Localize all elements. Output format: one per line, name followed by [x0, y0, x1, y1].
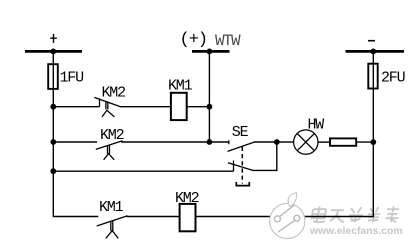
wire: row2 SE to node [254, 141, 277, 143]
node: left bus junction dot [50, 49, 56, 55]
watermark logo circle [270, 193, 305, 239]
wire: resistor to right bus [356, 141, 373, 143]
wire: row1 right segment [187, 106, 210, 108]
fuse 2FU [368, 64, 377, 89]
svg-text:KM1: KM1 [99, 199, 124, 216]
wire: row2 mid segment [121, 141, 229, 143]
wire: row3 long segment [53, 170, 233, 172]
resistor (ballast) [330, 138, 356, 145]
switch SE top pole [228, 140, 255, 151]
svg-text:1FU: 1FU [60, 69, 84, 86]
switch SE bottom pole [228, 161, 253, 172]
switch SE manual actuator bracket [236, 182, 249, 186]
right bus bar [346, 50, 405, 53]
node: right bus dot [370, 49, 376, 55]
wire: right bus vertical + row4 end [196, 51, 374, 216]
wire: row4 mid segment [127, 216, 180, 218]
fuse 1FU [48, 64, 58, 89]
plus terminal label [50, 34, 57, 43]
node: SE output dot [274, 139, 280, 145]
node: middle bus dot [207, 49, 213, 55]
node: row1/mid junction dot [207, 104, 213, 110]
svg-text:www.elecfans.com: www.elecfans.com [309, 226, 403, 237]
svg-text:KM1: KM1 [168, 77, 193, 94]
contact KM2 NC (row1) [94, 97, 119, 117]
contact KM2 NO (row2) [96, 141, 123, 160]
logo leaf [288, 193, 297, 207]
wire: row1 left segment [53, 106, 99, 108]
wire: row2 left segment [53, 141, 97, 143]
node: row1 tap dot [50, 104, 56, 110]
node: row2 tap dot [50, 139, 56, 145]
minus terminal label [368, 40, 375, 42]
contact KM1 NO (row4) [97, 216, 128, 239]
node: row2/right bus dot [370, 139, 376, 145]
wire: left bus vertical + row4 start [53, 51, 98, 216]
svg-text:2FU: 2FU [381, 70, 405, 87]
middle bus bar [192, 50, 230, 53]
watermark text 电子发烧友 [311, 206, 402, 223]
coil KM1 [171, 93, 187, 120]
left bus bar [25, 50, 82, 53]
svg-text:(+): (+) [180, 30, 208, 49]
svg-text:KM2: KM2 [102, 85, 126, 102]
wire: node to lamp [277, 141, 294, 143]
wire: SE bottom right to node riser [253, 142, 277, 170]
wire: middle vertical [208, 51, 210, 142]
lamp HW [294, 130, 318, 154]
coil KM2 [180, 204, 196, 231]
wire: lamp to resistor [318, 141, 330, 143]
svg-text:WTW: WTW [215, 32, 241, 50]
logo switch glyph [274, 205, 299, 232]
node: row3 tap dot [50, 168, 56, 174]
wire: row1 mid segment [120, 106, 171, 108]
node: row2/mid junction dot [207, 139, 213, 145]
svg-text:SE: SE [232, 124, 249, 141]
switch SE linkage dashed line [241, 147, 243, 184]
